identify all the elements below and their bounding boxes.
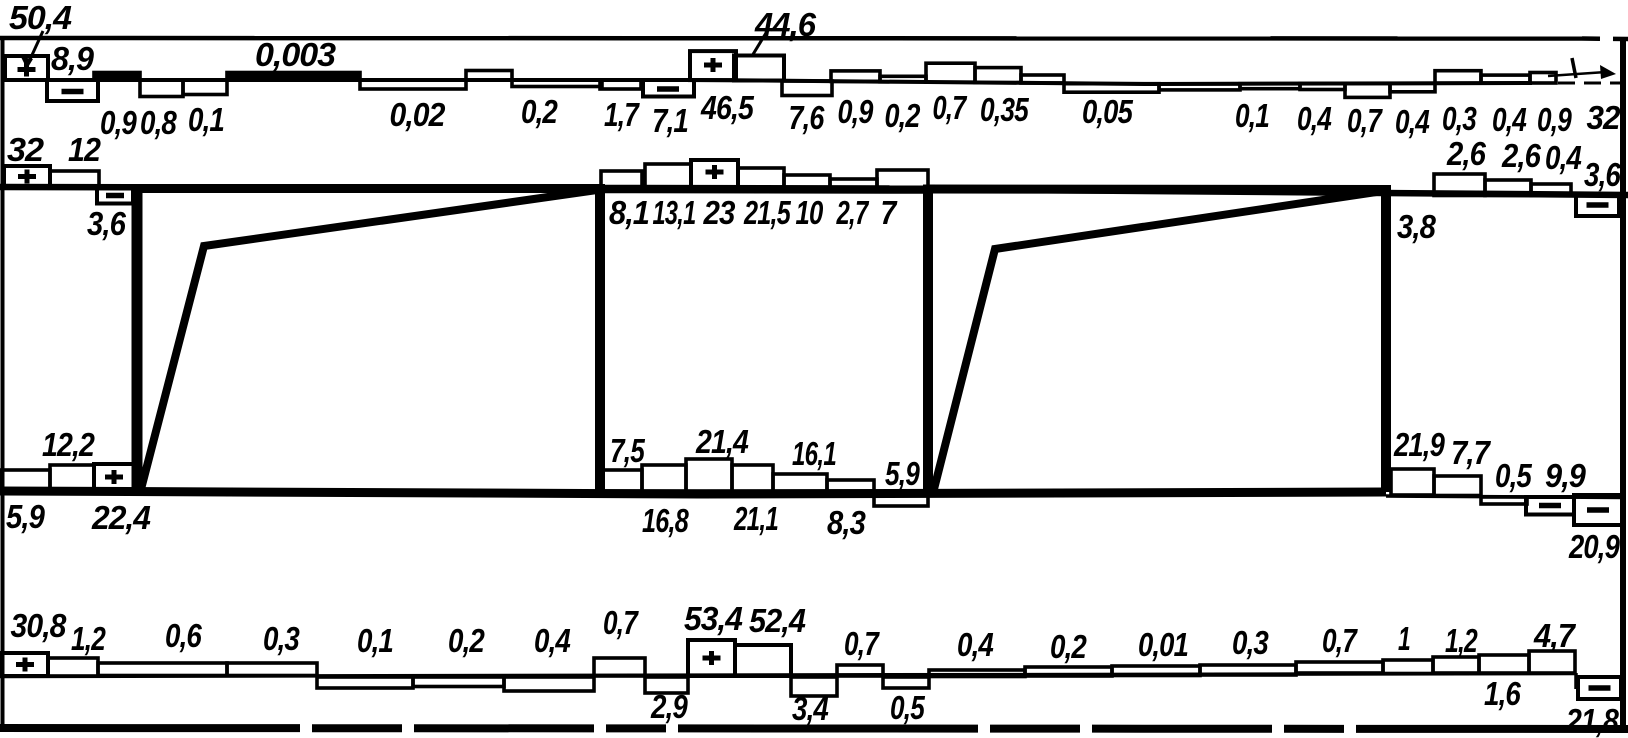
right panel top edge overlay — [923, 185, 1391, 195]
minus sign 9,9 box — [1539, 503, 1561, 509]
svg-text:0,4: 0,4 — [534, 622, 571, 659]
svg-text:50,4: 50,4 — [9, 0, 72, 36]
step below (x1159) — [1159, 84, 1240, 90]
svg-text:21,1: 21,1 — [733, 500, 778, 537]
svg-text:32: 32 — [7, 131, 45, 168]
svg-text:2,6: 2,6 — [1501, 137, 1541, 174]
step 0,2 below — [512, 80, 602, 87]
step 0,01 (ground) — [1112, 666, 1200, 676]
step 0,7b (ground) — [837, 665, 883, 676]
second floor beam thick overlay (mid bay) — [598, 185, 930, 194]
right panel right edge — [1381, 189, 1391, 492]
svg-text:23: 23 — [703, 194, 735, 231]
step 21,4 (floor mid) — [686, 459, 732, 491]
svg-text:1,7: 1,7 — [604, 96, 640, 133]
svg-text:5,9: 5,9 — [885, 455, 920, 492]
svg-text:0,2: 0,2 — [1050, 628, 1087, 665]
svg-text:0,02: 0,02 — [390, 96, 446, 133]
step 0,2b (ground) — [1025, 667, 1112, 676]
step box +46,5 — [690, 51, 736, 80]
step 4,7a (ground) — [1479, 655, 1529, 673]
step 12,2 (floor left) — [50, 465, 94, 489]
svg-text:3,6: 3,6 — [87, 205, 126, 242]
step 0,7 (ground) — [594, 658, 645, 676]
step 2,9 below (ground) — [645, 677, 688, 693]
svg-text:3,6: 3,6 — [1584, 156, 1621, 193]
step 13,1 (mid bay) — [645, 164, 691, 189]
svg-text:8,3: 8,3 — [827, 504, 866, 541]
step 0,4 below (x1390) — [1390, 83, 1435, 92]
minus sign 21,8 box — [1589, 685, 1611, 691]
step band above (x466) — [466, 71, 512, 81]
step 21,1 (floor mid) — [732, 465, 773, 491]
svg-text:1,2: 1,2 — [71, 620, 106, 657]
step 0,2 below (ground) — [413, 677, 504, 687]
right border column line — [1620, 40, 1626, 733]
step 5,9 below (floor mid) — [874, 493, 928, 507]
svg-text:20,9: 20,9 — [1568, 528, 1620, 565]
step box -9,9 (floor right) — [1526, 497, 1574, 515]
top chord line (dashed right end) — [1582, 36, 1628, 41]
step box -3,6 (beam2) — [97, 188, 133, 204]
plus sign in 23 box — [706, 165, 724, 179]
svg-text:0,05: 0,05 — [1082, 93, 1133, 130]
step band 0,003 — [227, 73, 360, 81]
svg-text:22,4: 22,4 — [91, 499, 151, 536]
minus sign in 8,9 box — [62, 89, 84, 95]
top right arrowhead — [1600, 65, 1616, 79]
minus sign right bay box — [1587, 202, 1609, 208]
step 16,8 (floor mid) — [642, 465, 686, 491]
plus sign floor left box — [105, 470, 123, 484]
svg-text:0,2: 0,2 — [448, 622, 485, 659]
step 0,8 below — [183, 80, 227, 95]
step 10 (mid bay) — [784, 175, 830, 189]
svg-text:0,9: 0,9 — [838, 93, 874, 130]
top diagram baseline dashed extension — [1532, 82, 1620, 85]
step 12 (beam2 left) — [50, 171, 99, 187]
svg-text:0,4: 0,4 — [1492, 101, 1527, 138]
svg-text:0,2: 0,2 — [885, 97, 921, 134]
step 0,4b (ground) — [929, 670, 1025, 677]
left border column line — [1, 37, 5, 729]
left panel left edge — [132, 187, 143, 492]
svg-text:0,4: 0,4 — [1545, 139, 1582, 176]
step box +50,4 — [5, 56, 48, 80]
svg-text:0,5: 0,5 — [890, 689, 925, 726]
arrowhead of 50,4 leader — [21, 57, 33, 69]
svg-text:0,2: 0,2 — [521, 93, 558, 130]
ground beam baseline — [0, 674, 1576, 677]
svg-text:44,6: 44,6 — [754, 6, 817, 43]
plus sign 53,4 box — [703, 651, 721, 665]
step 7 (mid bay) — [877, 170, 928, 190]
step 5,9 (floor left) — [1, 470, 50, 490]
step 2,6 a (right bay) — [1434, 174, 1485, 196]
step box -7,1 — [643, 80, 694, 97]
svg-text:8,1: 8,1 — [609, 194, 649, 231]
svg-text:7,5: 7,5 — [610, 432, 645, 469]
step 0,3 above — [1435, 71, 1481, 84]
step 0,2 shelf above — [880, 76, 926, 82]
dimension tick top right — [1572, 58, 1576, 78]
minus sign in 3,6 box — [106, 193, 124, 199]
svg-text:7,7: 7,7 — [1451, 434, 1491, 471]
step band above (x1021) — [1021, 75, 1064, 83]
svg-text:0,7: 0,7 — [844, 625, 880, 662]
svg-text:0,4: 0,4 — [957, 626, 994, 663]
second floor beam line — [0, 187, 1628, 195]
svg-text:0,4: 0,4 — [1395, 103, 1430, 140]
step box +53,4 — [688, 640, 735, 676]
step box -8,9 — [47, 80, 98, 101]
ground baseline drop at right — [1574, 673, 1578, 689]
step 8,3 (floor mid) — [827, 480, 874, 491]
svg-text:0,7: 0,7 — [1347, 102, 1383, 139]
step band above (x94) — [94, 73, 140, 81]
top chord line (solid part) — [0, 36, 1582, 41]
step 0,5 below (floor right) — [1481, 497, 1527, 504]
svg-text:0,8: 0,8 — [140, 104, 177, 141]
svg-text:0,3: 0,3 — [263, 620, 300, 657]
svg-text:0,1: 0,1 — [188, 101, 224, 138]
svg-text:1,6: 1,6 — [1484, 675, 1521, 712]
left panel top edge overlay — [132, 184, 605, 193]
step 0,3 (ground) — [227, 663, 317, 676]
svg-text:0,3: 0,3 — [1232, 624, 1269, 661]
svg-text:1,2: 1,2 — [1445, 622, 1478, 659]
svg-text:0,35: 0,35 — [980, 91, 1029, 128]
step 0,6 (ground) — [98, 663, 227, 676]
top right arrow shaft — [1548, 72, 1606, 76]
step box +30,8 — [2, 653, 48, 676]
step 0,35 above — [975, 68, 1021, 83]
svg-text:2,9: 2,9 — [650, 688, 688, 725]
plus sign in 32 box — [18, 170, 36, 184]
step 0,02 below — [360, 80, 466, 89]
svg-text:46,5: 46,5 — [700, 89, 754, 126]
step 1,2 (ground) — [48, 658, 98, 676]
step box +22,4 (floor left) — [94, 464, 134, 491]
svg-text:0,1: 0,1 — [357, 622, 393, 659]
svg-text:0,7: 0,7 — [603, 604, 639, 641]
plus sign 30,8 box — [16, 658, 34, 672]
first floor beam line (thick) — [0, 491, 1386, 494]
svg-text:4,7: 4,7 — [1533, 617, 1576, 654]
svg-text:7: 7 — [881, 194, 898, 231]
step 0,5 below (ground) — [883, 677, 929, 688]
svg-text:5,9: 5,9 — [6, 498, 45, 535]
svg-text:0,5: 0,5 — [1495, 457, 1532, 494]
svg-text:0,3: 0,3 — [1442, 100, 1477, 137]
step box -3,6 (right bay) — [1576, 194, 1619, 216]
svg-text:1: 1 — [1398, 620, 1410, 657]
svg-text:2,6: 2,6 — [1446, 135, 1486, 172]
leader line for 44,6 — [752, 33, 766, 56]
step box -20,9 (floor right) — [1574, 495, 1622, 525]
minus sign in 7,1 box — [657, 86, 679, 92]
step 44,6 above — [734, 56, 784, 81]
step 16,1 (floor mid) — [773, 474, 827, 491]
minus sign 20,9 box — [1587, 507, 1609, 513]
svg-text:8,9: 8,9 — [51, 40, 95, 77]
svg-text:21,8: 21,8 — [1565, 702, 1619, 738]
step 0,7c (ground) — [1296, 662, 1383, 673]
step 52,4 (ground) — [735, 645, 791, 676]
step 0,9 above (x1530) — [1530, 73, 1556, 84]
step box -21,8 — [1578, 677, 1621, 699]
step 2,6 b (right bay) — [1485, 180, 1531, 196]
step 0,4 below — [1300, 84, 1345, 90]
svg-text:32: 32 — [1587, 99, 1622, 136]
step 0,4 above (x1481) — [1481, 75, 1530, 83]
step 7,5 (floor mid) — [603, 470, 642, 491]
svg-text:16,1: 16,1 — [792, 435, 836, 472]
left panel right edge — [595, 187, 605, 492]
step 4,7b (ground) — [1529, 651, 1575, 673]
step 1 (ground) — [1383, 660, 1433, 674]
step 0,7 below deep — [1345, 83, 1390, 97]
svg-text:0,7: 0,7 — [1322, 622, 1358, 659]
svg-text:7,1: 7,1 — [652, 102, 688, 139]
plus sign in 46,5 box — [704, 58, 722, 72]
svg-text:13,1: 13,1 — [653, 194, 696, 231]
step 0,05 below — [1064, 84, 1159, 93]
step 0,9 above — [831, 71, 880, 82]
right panel moment polyline — [933, 191, 1383, 493]
step 0,4 below (ground) — [504, 677, 594, 691]
step box +32 (beam2 left) — [4, 166, 50, 187]
foundation dashed line — [0, 728, 1628, 729]
step 0,7 above — [926, 63, 975, 82]
svg-text:0,01: 0,01 — [1138, 626, 1188, 663]
svg-text:53,4: 53,4 — [684, 600, 743, 637]
svg-text:21,9: 21,9 — [1393, 426, 1445, 463]
svg-text:21,5: 21,5 — [743, 194, 791, 231]
svg-text:52,4: 52,4 — [749, 602, 806, 639]
left panel moment polyline — [140, 190, 597, 493]
svg-text:0,7: 0,7 — [933, 89, 968, 126]
svg-text:0,9: 0,9 — [100, 104, 137, 141]
step 7,6 below — [782, 81, 832, 96]
svg-text:0,9: 0,9 — [1537, 101, 1572, 138]
leader line for 50,4 — [27, 31, 43, 66]
svg-text:12: 12 — [68, 131, 102, 168]
first floor beam continuation right — [1386, 496, 1623, 498]
svg-text:10: 10 — [796, 194, 824, 231]
step 21,9 (floor right) — [1391, 469, 1434, 495]
step 21,5 (mid bay) — [738, 168, 784, 189]
svg-text:3,8: 3,8 — [1397, 208, 1436, 245]
step 7,7 (floor right) — [1434, 476, 1481, 496]
svg-text:0,6: 0,6 — [165, 617, 202, 654]
step 0,1 below — [1240, 84, 1300, 89]
right panel left edge — [923, 188, 933, 492]
step 1,7 below — [600, 80, 641, 89]
svg-text:30,8: 30,8 — [11, 607, 67, 644]
svg-text:2,7: 2,7 — [836, 194, 870, 231]
svg-text:0,003: 0,003 — [255, 36, 336, 73]
step 0,1 below (ground) — [317, 677, 413, 688]
step box +23 (mid bay) — [691, 160, 738, 189]
step 0,3b (ground) — [1200, 665, 1296, 675]
svg-text:12,2: 12,2 — [42, 426, 95, 463]
step 3,4 below (ground) — [791, 677, 837, 696]
top diagram baseline — [4, 80, 1532, 84]
step 1,2b (ground) — [1433, 657, 1479, 673]
svg-text:16,8: 16,8 — [642, 502, 689, 539]
step 8,1 (mid bay) — [601, 171, 642, 189]
svg-text:21,4: 21,4 — [695, 423, 748, 460]
svg-text:9,9: 9,9 — [1545, 457, 1587, 494]
step 0,4 (right bay) — [1531, 184, 1571, 196]
svg-text:0,4: 0,4 — [1297, 100, 1332, 137]
svg-text:3,4: 3,4 — [792, 690, 829, 727]
svg-text:0,1: 0,1 — [1235, 97, 1269, 134]
step 0,9 below — [140, 80, 183, 97]
svg-text:7,6: 7,6 — [789, 99, 825, 136]
step 2,7 (mid bay) — [830, 179, 877, 189]
plus sign in 50,4 box — [18, 63, 36, 77]
